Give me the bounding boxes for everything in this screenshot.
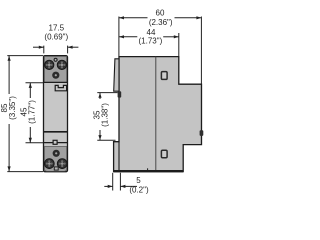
dim 5 arrow right xyxy=(121,185,137,187)
dim 60 line xyxy=(119,17,148,19)
svg-text:(0.2"): (0.2") xyxy=(129,186,149,195)
side view square hole bottom xyxy=(161,150,167,157)
side view bottom tick xyxy=(147,168,149,171)
bottom tab xyxy=(54,167,58,170)
side view mid seam xyxy=(155,57,157,172)
dim 44 ext line right xyxy=(178,33,180,56)
dim 5 ext line right xyxy=(119,173,121,191)
dim 35 line xyxy=(99,93,101,99)
svg-text:(1.73"): (1.73") xyxy=(139,36,163,45)
dim 60 ext line right xyxy=(200,17,202,84)
svg-text:(3.35"): (3.35") xyxy=(8,96,17,120)
screw top-left xyxy=(45,60,54,69)
front bottom terminal block xyxy=(44,146,66,171)
seam line top xyxy=(43,81,67,83)
small square on lower seam xyxy=(53,140,57,144)
side view right hook xyxy=(200,130,204,136)
coil circle bottom xyxy=(53,150,60,157)
dim 5 arrow left xyxy=(104,185,112,187)
dim 45 ext line bottom xyxy=(26,142,44,144)
dim 17.5 arrow left xyxy=(33,46,44,48)
screw top-right xyxy=(57,60,66,69)
dim 5 ext line left xyxy=(112,173,114,191)
dim 45 ext line top xyxy=(26,82,44,84)
seam line lower xyxy=(43,142,67,144)
DIN clip bracket front xyxy=(55,85,66,90)
svg-text:5: 5 xyxy=(136,176,141,185)
svg-text:(1.38"): (1.38") xyxy=(101,103,110,127)
front top terminal block xyxy=(44,56,66,82)
screw bottom-left xyxy=(44,159,54,169)
dim 17.5 arrow right xyxy=(68,46,79,48)
side view square hole top xyxy=(161,72,167,80)
coil circle top xyxy=(52,72,59,79)
svg-text:17.5: 17.5 xyxy=(49,24,65,33)
side view bottom thick edge xyxy=(114,170,184,172)
dim 85 line xyxy=(8,56,10,94)
svg-text:(1.77"): (1.77") xyxy=(28,100,37,124)
dim 17.5 ext line right xyxy=(67,46,69,54)
small top ring xyxy=(54,58,57,61)
dim 44 line xyxy=(119,36,137,38)
dim 45 line xyxy=(29,83,31,98)
svg-text:60: 60 xyxy=(156,9,165,18)
dim 17.5 ext line left xyxy=(43,46,45,54)
side view left edge seam xyxy=(118,142,120,172)
side view clip hook square xyxy=(118,91,122,97)
side view body outline xyxy=(114,57,202,172)
thick seam line middle xyxy=(43,131,67,133)
dim 35 ext line top xyxy=(97,92,117,94)
dim 60 ext line left xyxy=(118,17,120,57)
svg-text:(0.69"): (0.69") xyxy=(44,33,68,42)
front view body xyxy=(44,56,68,172)
dim 85 ext line bottom xyxy=(7,171,43,173)
screw bottom-right xyxy=(57,159,67,169)
side view DIN clip tab xyxy=(114,59,119,91)
svg-text:(2.36"): (2.36") xyxy=(149,18,173,27)
dim 35 ext line bottom xyxy=(97,139,115,141)
dim 85 ext line top xyxy=(7,55,43,57)
